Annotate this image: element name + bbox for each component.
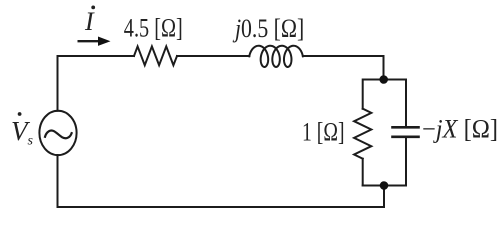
resistor R2 1 ohm vertical (354, 109, 371, 159)
capacitor C1 -jX top plate (393, 126, 419, 129)
wire capacitor bottom lead and bottom rail (363, 137, 406, 186)
capacitor C1 -jX bottom plate (393, 136, 419, 139)
wire resistor bottom lead (362, 159, 364, 186)
label I dot (current phasor dot) (91, 6, 95, 10)
svg-text:I: I (84, 7, 95, 36)
source sine wave (45, 130, 72, 138)
node B bottom junction dot (380, 181, 389, 190)
node A top junction dot (379, 75, 388, 84)
resistor R1 4.5 ohm (134, 46, 177, 65)
inductor L1 j0.5 ohm (249, 46, 303, 67)
svg-text:Vs: Vs (11, 116, 34, 149)
svg-text:4.5 [Ω]: 4.5 [Ω] (124, 13, 183, 42)
svg-text:1 [Ω]: 1 [Ω] (302, 118, 345, 147)
node top junction rail (363, 80, 406, 128)
wire top right segment (303, 56, 384, 80)
source Vs circle (39, 111, 76, 155)
svg-text:j0.5 [Ω]: j0.5 [Ω] (232, 14, 304, 43)
current arrow I (78, 37, 111, 46)
wire top left segment (58, 56, 135, 111)
svg-text:−jX [Ω]: −jX [Ω] (422, 115, 498, 144)
wire bottom return (58, 155, 385, 207)
label Vs dot (voltage phasor dot) (18, 112, 22, 116)
wire between resistor and inductor (177, 55, 249, 57)
